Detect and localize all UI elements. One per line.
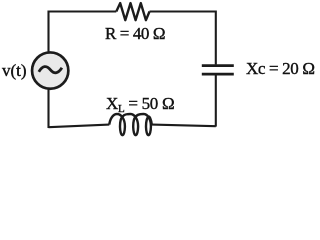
value label Xc = 20 ohms bbox=[246, 59, 315, 79]
ac source v(t) sine symbol bbox=[39, 67, 62, 73]
wire top-left segment bbox=[49, 10, 117, 12]
value label R = 40 ohms bbox=[105, 24, 165, 44]
ac source v(t) circle bbox=[32, 52, 68, 88]
wire top-right segment bbox=[150, 10, 216, 12]
source label v(t) bbox=[2, 61, 27, 81]
value label XL = 50 ohms bbox=[106, 94, 174, 115]
wire right vertical lower bbox=[215, 75, 217, 126]
wire left vertical lower bbox=[47, 89, 49, 128]
wire right vertical upper bbox=[215, 11, 217, 65]
capacitor Xc bottom plate bbox=[202, 73, 234, 76]
resistor R bbox=[116, 3, 149, 20]
wire bottom-left segment bbox=[49, 125, 110, 128]
inductor XL coil bbox=[109, 114, 152, 135]
wire bottom-right segment bbox=[152, 125, 216, 127]
wire left vertical upper bbox=[47, 11, 49, 53]
capacitor Xc top plate bbox=[202, 64, 234, 67]
